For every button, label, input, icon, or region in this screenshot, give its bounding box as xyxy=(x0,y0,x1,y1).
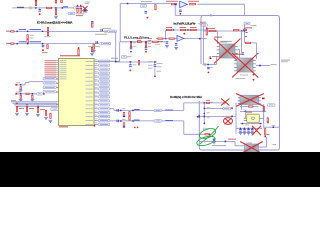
wire vertical x236 xyxy=(235,103,237,134)
pill net PLL lower-left xyxy=(121,56,127,59)
pill net OUT1 xyxy=(154,109,162,112)
wire net RefClkOut+ xyxy=(7,30,108,32)
wire vertical x241 xyxy=(240,105,242,110)
pill net below wire xyxy=(68,12,75,14)
junction xyxy=(132,110,134,112)
value label above X05 xyxy=(236,77,246,80)
resistor R24 mid xyxy=(137,41,141,42)
annotation red X xyxy=(221,99,230,106)
capacitor C13b below xyxy=(123,123,125,126)
pin text above xyxy=(111,57,118,60)
resistor R08B below xyxy=(47,32,48,35)
IC U05 body xyxy=(59,59,95,126)
svg-text:IC-05:Count[19:0] <=>SMA: IC-05:Count[19:0] <=>SMA xyxy=(37,21,73,25)
pill net top xyxy=(140,5,147,8)
crossed transistor Q05A not fitted xyxy=(220,44,236,58)
capacitor C08 below xyxy=(20,87,21,90)
red tick xyxy=(231,107,233,109)
junction mid1 xyxy=(204,108,205,109)
footprint text Q05B xyxy=(240,74,248,77)
junction xyxy=(20,84,22,86)
resistor R14 tall xyxy=(129,116,130,120)
power flag above chip xyxy=(91,47,92,51)
wire to Q05B cap xyxy=(240,31,242,52)
capacitor C13 xyxy=(145,11,148,13)
resistor R27 vertical on wire xyxy=(138,60,139,65)
resistor R16 xyxy=(171,4,177,5)
junction bottom of vertical xyxy=(204,123,206,125)
junction xyxy=(35,7,37,9)
wire bend to X06 xyxy=(234,141,236,145)
net label PLL lower-left xyxy=(127,55,132,58)
net label near border xyxy=(272,124,275,127)
red dot C22 xyxy=(267,122,269,124)
crossed diode D05 not fitted xyxy=(83,6,88,11)
resistor R35 bias xyxy=(246,42,251,43)
wire feedback left xyxy=(174,4,176,15)
junction xyxy=(199,38,201,40)
wire net RefClkOut- xyxy=(7,43,99,45)
wire above Y05 xyxy=(240,110,266,112)
resistor column right of caps xyxy=(265,129,266,136)
red tick right of pill xyxy=(43,93,45,95)
junction xyxy=(16,31,18,32)
junction xyxy=(225,141,227,143)
wire VCO out xyxy=(256,65,270,67)
capacitor C06 below xyxy=(42,45,45,47)
resistor R06A xyxy=(11,31,14,32)
connector J05 label outside xyxy=(281,60,290,61)
blue tick edge xyxy=(199,115,200,118)
junction mid2 xyxy=(204,113,205,114)
capacitor C21 xyxy=(207,67,210,69)
value label R17 xyxy=(188,0,199,3)
junction aux2b xyxy=(32,93,33,95)
junction xyxy=(187,29,189,31)
wire caps row xyxy=(236,127,262,129)
junction xyxy=(231,116,233,118)
label above aux2 xyxy=(16,91,20,94)
junction xyxy=(120,120,122,122)
no-ERC marker xyxy=(29,7,31,9)
junction xyxy=(16,43,18,45)
wire op-amp out xyxy=(198,3,245,5)
value label out xyxy=(271,63,277,66)
wire below Y05 xyxy=(240,123,262,125)
ground dot C05A xyxy=(39,13,41,15)
wire C20 down xyxy=(154,67,156,75)
capacitor C05F above row2 xyxy=(91,21,94,23)
capacitor C20 stem xyxy=(154,62,156,64)
red dot C19 xyxy=(130,70,132,72)
resistor R33 on box3 drop xyxy=(263,106,264,110)
resistor R07B vertical xyxy=(27,39,28,43)
capacitor C14 feedback xyxy=(179,10,182,12)
junction xyxy=(173,29,175,31)
pill net OUT2 xyxy=(154,120,162,123)
ground R05C xyxy=(54,16,58,18)
wire VCXO mid xyxy=(199,115,236,117)
net label small xyxy=(267,133,270,136)
net label above R21 xyxy=(200,21,206,24)
red dot R34 xyxy=(209,133,211,135)
capacitor C05B stack xyxy=(77,5,79,6)
value labels above wire right xyxy=(148,37,152,40)
ground varactor xyxy=(212,142,216,144)
junction xyxy=(130,41,132,43)
red dot C21 xyxy=(208,72,210,74)
capacitor tick xyxy=(15,84,17,86)
resistor R23 xyxy=(169,38,174,39)
junction dots on bus xyxy=(16,103,18,105)
value labels top row xyxy=(166,26,172,29)
wire caps row to border xyxy=(264,126,280,128)
svg-text:PLL/Loop Filters: PLL/Loop Filters xyxy=(124,35,150,39)
junction xyxy=(42,31,44,32)
capacitor C05C stack xyxy=(80,5,82,6)
section border VCO and VCXO boxes xyxy=(199,16,279,151)
junction xyxy=(204,116,206,118)
wire VCXO top xyxy=(184,102,226,104)
Q05B pin stubs xyxy=(234,59,237,62)
capacitor C20 xyxy=(154,64,157,66)
tag mid1 xyxy=(207,106,210,109)
pulldown resistor RN1 xyxy=(16,107,17,112)
value label C07A xyxy=(95,33,107,36)
junction xyxy=(259,65,261,67)
power flag red xyxy=(155,5,156,10)
value label GND xyxy=(42,51,48,54)
U05 corner dot xyxy=(94,125,96,127)
Q05A pin stubs xyxy=(217,45,220,48)
designator Y05 xyxy=(246,111,252,114)
ground C08 xyxy=(19,90,23,92)
resistor R17 xyxy=(190,4,196,5)
power dot R21 xyxy=(206,27,208,29)
power dot R10 xyxy=(78,47,80,49)
wire staircase to pill row xyxy=(24,83,26,85)
wire Q05A left down xyxy=(216,57,218,65)
wire bias row xyxy=(245,42,257,44)
red dot C18 xyxy=(145,51,147,53)
wire VCO in xyxy=(204,30,245,32)
tag mid2 xyxy=(207,111,210,114)
resistor R29 xyxy=(209,30,216,31)
value label D05 xyxy=(85,1,90,4)
junction caps row border xyxy=(273,127,275,129)
pill net bottom-left xyxy=(51,108,59,111)
label above row13 xyxy=(122,107,126,110)
net label B xyxy=(19,41,26,42)
resistor R26 vertical xyxy=(145,43,146,47)
junction below Y05 right xyxy=(260,123,262,125)
crossed IC X05 not fitted xyxy=(240,95,259,104)
pill net VCXO a xyxy=(223,107,231,110)
wire into pill xyxy=(56,103,58,106)
resistor R25 vertical xyxy=(130,43,131,47)
capacitor C09 below xyxy=(32,95,33,98)
net label RefIn on wire xyxy=(17,7,24,8)
varactor D06 xyxy=(213,139,216,140)
net label OUT2 right xyxy=(165,120,173,121)
part number text Q05A inside xyxy=(221,40,232,43)
svg-text:IC-06(2x) c:VCXO for SNA: IC-06(2x) c:VCXO for SNA xyxy=(170,95,202,99)
resistor R07 vertical xyxy=(27,35,28,39)
IC U05 right pin names xyxy=(86,60,93,63)
IC U05 right pin stubs xyxy=(94,60,98,62)
ground C10 xyxy=(19,99,23,101)
capacitor C12 xyxy=(117,120,119,123)
tag text below junction xyxy=(207,127,210,130)
wire top net xyxy=(120,3,171,5)
resistor R10 above chip xyxy=(78,49,79,55)
resistor R06B xyxy=(11,43,14,44)
resistor R21 pullup xyxy=(206,29,207,35)
red dot edge xyxy=(197,116,199,118)
capacitor C16 xyxy=(175,43,178,45)
value label R08 xyxy=(44,35,51,38)
junction xyxy=(132,120,134,122)
wire net RefIn top-left xyxy=(12,7,74,9)
capacitor C05A xyxy=(38,9,41,11)
junction xyxy=(127,3,129,5)
wire pill down xyxy=(203,26,205,64)
junction xyxy=(154,61,156,63)
label above row16 xyxy=(122,118,126,121)
ground dots row16 xyxy=(134,127,136,129)
pill net above R21 xyxy=(202,24,208,26)
junction xyxy=(210,15,212,17)
pulldown resistor RN4 xyxy=(45,110,46,115)
wire vertical junction link xyxy=(203,103,205,124)
wire net OUT1 row13 xyxy=(114,109,184,111)
no-ERC marker lower xyxy=(204,63,206,65)
no-ERC marker xyxy=(104,30,106,32)
value label R16 xyxy=(166,0,178,3)
designator U05 LTC6950 xyxy=(60,55,80,56)
value label R26 xyxy=(148,42,152,45)
junction xyxy=(55,7,57,9)
capacitor C07A xyxy=(101,29,103,32)
designator U05 bottom xyxy=(59,126,68,127)
wire PLL left vertical xyxy=(115,32,117,63)
resistor R34 on bottom wire xyxy=(205,134,209,135)
junction xyxy=(204,102,206,104)
label 1xx xyxy=(273,143,277,146)
net label OUT2 xyxy=(134,120,140,121)
capacitor C19 xyxy=(129,64,132,66)
pill nets left of U05 xyxy=(43,77,56,80)
value label R31 above xyxy=(206,99,210,102)
wire vertical from top net xyxy=(119,4,121,42)
value label C21 xyxy=(210,66,213,69)
junction xyxy=(145,41,147,43)
green annotation tail xyxy=(200,126,219,144)
ground dot xyxy=(147,17,149,19)
Y05 right pin stub xyxy=(259,117,263,120)
power dot R05A xyxy=(35,0,37,2)
net label A xyxy=(19,29,26,30)
wire vertical right x264 xyxy=(263,104,265,128)
wire OUT1 bend up xyxy=(183,103,185,111)
wire U05 row1 link xyxy=(94,60,120,62)
capacitor C13a below xyxy=(123,112,125,115)
pulldown resistor RN3 xyxy=(37,107,38,112)
value label C05F xyxy=(103,27,111,30)
wire link rows xyxy=(165,30,167,39)
pill tag below junction xyxy=(203,128,206,130)
wire PLL corner vertical xyxy=(119,42,121,62)
power cluster flag2 xyxy=(245,36,247,37)
red mark right xyxy=(262,98,265,100)
wire Y05 left vertical xyxy=(244,111,246,118)
red mark xyxy=(183,33,185,35)
resistor R05B xyxy=(47,7,52,8)
pulldown resistor RN2 xyxy=(26,107,27,112)
value labels right of C20 xyxy=(157,62,163,65)
junction xyxy=(241,30,243,32)
junction xyxy=(130,61,132,63)
svg-text:Int.Fs&PLL2/LpFltr: Int.Fs&PLL2/LpFltr xyxy=(174,22,196,26)
junction xyxy=(165,38,167,40)
Y05 left pin stubs xyxy=(244,117,247,120)
value label below Y05 xyxy=(245,124,249,127)
wire branch right xyxy=(204,108,222,110)
part number text Q05A xyxy=(218,41,227,44)
resistor R18 xyxy=(167,29,172,30)
label row bottom xyxy=(212,144,226,147)
IC U05 right pin numbers xyxy=(95,58,98,61)
capacitor C24 on Q05B top xyxy=(242,52,245,54)
IC U05 left pin labels red xyxy=(45,59,57,62)
IC U05 left pin stubs xyxy=(56,59,58,62)
red dot Q05B xyxy=(253,74,255,76)
diode D05 symbol xyxy=(83,10,87,12)
wire PLL2 mid xyxy=(156,38,207,40)
wire PLL lower xyxy=(116,61,157,63)
capacitor C17 xyxy=(130,47,133,49)
IC U05 left pin names xyxy=(60,59,67,62)
op-amp U06 xyxy=(180,1,188,7)
value labels pulldowns xyxy=(19,107,24,110)
pill net RefClkOut- xyxy=(102,42,111,45)
capacitor C07B xyxy=(96,41,98,44)
resistor R31 xyxy=(206,102,209,103)
ground C15 xyxy=(165,46,169,48)
junction above Y05 right xyxy=(263,111,265,113)
resistor R11 xyxy=(26,93,29,94)
ground dot feedback xyxy=(180,13,182,15)
green annotation loop 2 xyxy=(196,134,216,147)
junction xyxy=(174,4,176,6)
wire X06 right xyxy=(259,146,267,148)
oscillator Y05 xyxy=(247,114,260,122)
wire Y05 right vertical xyxy=(263,111,265,123)
red dot below resistor xyxy=(264,136,266,138)
power cluster label xyxy=(251,24,257,27)
net label mid xyxy=(63,6,68,7)
blue tick near Q05A xyxy=(210,58,212,59)
resistor R22 xyxy=(158,38,163,39)
annotation red circled X xyxy=(224,118,233,125)
resistor R08A above xyxy=(47,27,48,31)
wire right vertical xyxy=(244,4,246,15)
capacitor C22 red xyxy=(267,118,268,122)
net stub label xyxy=(6,43,10,44)
resistor R09A below xyxy=(47,45,48,49)
value label R25 xyxy=(133,41,136,44)
resistor R05E up partial xyxy=(61,0,63,3)
red dot C20 xyxy=(154,75,156,77)
wire to Q05A xyxy=(216,31,218,44)
crossed oscillator X06 not fitted xyxy=(245,144,259,152)
ground R09 xyxy=(92,51,96,53)
bus wires bottom-left xyxy=(11,101,58,103)
wire under X05 xyxy=(240,106,259,108)
resistor R32 xyxy=(249,106,254,107)
capacitor C10 below xyxy=(20,95,21,98)
resistor R05C down xyxy=(55,9,56,15)
wire Q05A-Q05B link xyxy=(238,49,240,51)
resistor R13 tall xyxy=(129,112,130,116)
resistor R24 xyxy=(153,41,159,42)
value labels PLL lower extra xyxy=(148,60,153,63)
junction on VCO wire xyxy=(244,30,245,31)
pill net aux2 xyxy=(37,93,43,96)
X05 pin stubs xyxy=(238,97,240,100)
tag mid3 xyxy=(207,116,210,119)
power cluster red flag xyxy=(245,27,252,28)
annotation red X over cap xyxy=(252,126,261,136)
red dot C06 xyxy=(42,49,44,51)
pill net RefClkOut+ xyxy=(108,30,117,32)
wire VCO lower xyxy=(203,63,217,65)
wire aux2 xyxy=(16,93,37,95)
power cluster tick xyxy=(245,32,247,33)
footprint text X06 xyxy=(246,142,252,145)
value label C19 xyxy=(132,64,136,67)
red dot C17 xyxy=(130,51,132,53)
pill net right xyxy=(268,104,276,107)
net label RefClkOut- xyxy=(30,41,42,42)
capacitor C15 xyxy=(166,41,169,43)
wire PLL2 top xyxy=(166,29,207,31)
net label OUT1 right xyxy=(165,110,173,111)
capacitor C18 xyxy=(145,47,148,49)
resistor R20 xyxy=(190,29,196,30)
net label top xyxy=(141,0,152,3)
resistor R09 vertical xyxy=(93,44,94,49)
wire aux xyxy=(16,84,25,86)
value label cluster xyxy=(76,12,84,15)
value label right xyxy=(155,43,160,46)
resistor R19 xyxy=(181,29,186,30)
wire net OUT1 row13 jog xyxy=(110,108,114,110)
no-ERC marker xyxy=(223,102,225,104)
junction power chain xyxy=(244,28,245,29)
junction xyxy=(120,110,122,112)
red dot near Q05A xyxy=(209,56,211,58)
red dot above X05 xyxy=(253,79,255,81)
junction xyxy=(207,64,209,65)
resistor R30 xyxy=(234,30,240,31)
wire OUT2 bend down xyxy=(183,121,185,134)
junction xyxy=(62,7,64,9)
designator text right xyxy=(212,55,218,58)
value label R07 xyxy=(30,34,34,37)
capacitor C05A stub xyxy=(39,8,41,9)
wire net OUT2 row16 xyxy=(110,120,184,122)
